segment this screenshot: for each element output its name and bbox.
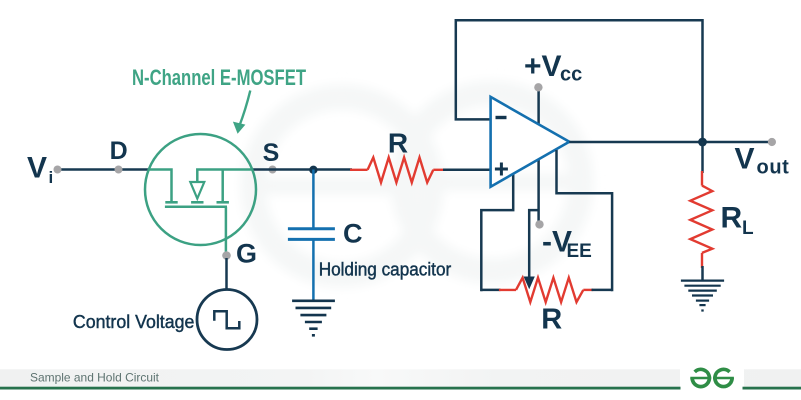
resistor R (pot) left red lead [499, 289, 516, 291]
wire: output node down to RL [701, 142, 704, 173]
node G terminal (grey) [222, 251, 231, 260]
svg-text:out: out [757, 157, 790, 179]
svg-text:L: L [742, 218, 754, 239]
voltage source V1 pulse symbol [214, 311, 239, 328]
GeeksforGeeks logo [690, 369, 734, 386]
resistor R (series) right lead [433, 169, 444, 171]
svg-text:Sample and Hold Circuit: Sample and Hold Circuit [30, 371, 160, 385]
svg-text:R: R [721, 202, 743, 235]
svg-text:R: R [541, 304, 562, 336]
wire: RL to ground [701, 266, 704, 281]
node S terminal (grey) [269, 166, 277, 174]
node output junction dot [698, 138, 707, 147]
transistor Q1 source lead [197, 170, 252, 183]
transistor Q1 substrate arrow (hollow) [190, 182, 204, 199]
wire: node A to capacitor (blue) [312, 170, 315, 229]
wire: + input down to offset network [481, 170, 513, 291]
wire: Vi input to MOSFET drain [58, 168, 149, 171]
resistor R (pot) left lead wire [481, 289, 500, 292]
resistor RL top red lead [701, 171, 703, 186]
wire: feedback loop left vertical [456, 20, 703, 142]
footer green line [0, 387, 681, 390]
op-amp U1 triangle [491, 97, 570, 187]
wire: capacitor to ground (blue) [312, 239, 315, 299]
svg-text:EE: EE [567, 241, 592, 262]
wire: MOSFET source to node A [252, 168, 352, 171]
transistor Q1 source contact pad [217, 201, 229, 204]
wire: wiper branch to resistor R (pot) [529, 210, 538, 277]
ground symbol (RL) [681, 281, 724, 311]
capacitor C top plate [288, 227, 335, 230]
power +Vcc pin wire [537, 87, 540, 224]
node -Vee terminal (grey) [535, 220, 543, 228]
resistor R (pot) zigzag [516, 278, 583, 302]
wire: resistor R to op-amp + input [443, 169, 491, 172]
svg-text:R: R [388, 128, 408, 159]
resistor R (pot) right red lead [583, 289, 593, 291]
voltage source V1 control voltage circle [197, 290, 257, 350]
transistor Q1 drain contact pad [165, 201, 177, 204]
transistor Q1 N-Channel E-MOSFET body circle [145, 134, 256, 245]
svg-text:D: D [110, 137, 128, 165]
ground symbol (capacitor) [292, 301, 335, 336]
svg-text:Holding capacitor: Holding capacitor [319, 259, 452, 279]
node +Vcc terminal (grey) [534, 83, 542, 91]
wire: op-amp bottom to offset network right side [557, 150, 613, 291]
resistor R (series) zigzag [368, 158, 434, 183]
node Vi terminal (grey) [54, 166, 62, 174]
node Vout terminal (grey) [768, 138, 776, 146]
svg-text:V: V [27, 152, 47, 185]
svg-text:+V: +V [524, 50, 562, 83]
svg-text:V: V [735, 143, 755, 176]
wire: G terminal to control voltage source [225, 258, 228, 290]
op-amp U1 minus pin symbol [496, 116, 507, 119]
resistor R (pot) right lead wire [592, 289, 613, 292]
resistor R (series) left lead [350, 169, 368, 171]
wire: op-amp output to Vout [569, 141, 772, 144]
transistor Q1 drain lead [148, 170, 172, 202]
svg-text:N-Channel E-MOSFET: N-Channel E-MOSFET [132, 65, 306, 90]
svg-text:cc: cc [560, 64, 582, 86]
transistor Q1 source bar [221, 170, 224, 202]
transistor Q1 middle contact pad [191, 201, 203, 204]
capacitor C bottom plate [288, 238, 335, 241]
op-amp U1 plus pin symbol [495, 163, 508, 176]
wiper arrowhead [524, 277, 535, 290]
svg-text:i: i [49, 168, 54, 187]
node D terminal (grey) [115, 166, 123, 174]
svg-text:S: S [263, 139, 280, 167]
resistor RL zigzag [690, 186, 712, 253]
svg-text:Control Voltage: Control Voltage [73, 312, 194, 332]
transistor Q1 gate plate [165, 206, 227, 209]
svg-text:C: C [343, 219, 363, 249]
svg-text:G: G [236, 239, 257, 269]
node A junction dot [309, 166, 317, 174]
resistor RL bottom red lead [701, 253, 703, 268]
annotation arrow to MOSFET [239, 91, 250, 127]
transistor Q1 gate lead [225, 207, 228, 252]
